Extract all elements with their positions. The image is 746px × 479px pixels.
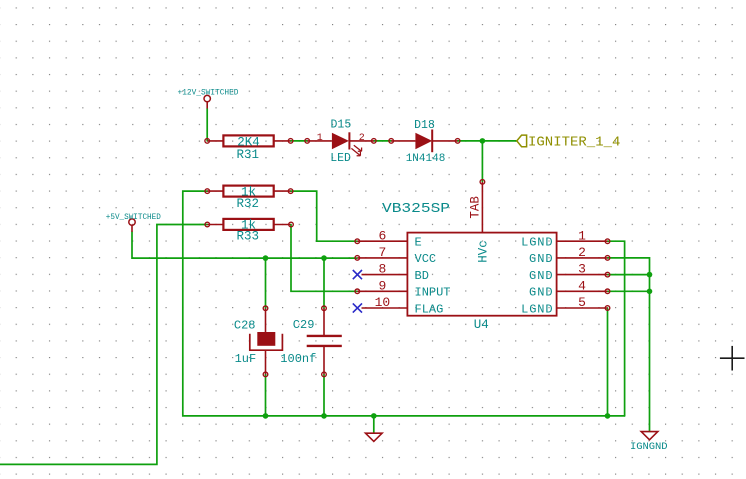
svg-text:E: E	[415, 236, 422, 250]
svg-text:R32: R32	[236, 197, 259, 211]
svg-text:GND: GND	[529, 269, 553, 283]
svg-text:C29: C29	[293, 318, 315, 332]
svg-text:LED: LED	[330, 152, 351, 165]
svg-text:10: 10	[375, 295, 391, 310]
svg-text:VB325SP: VB325SP	[382, 201, 450, 217]
svg-text:D18: D18	[414, 119, 435, 132]
svg-text:IGNGND: IGNGND	[630, 441, 668, 453]
svg-text:2: 2	[359, 133, 365, 144]
svg-text:BD: BD	[415, 269, 429, 283]
svg-text:+12V_SWITCHED: +12V_SWITCHED	[178, 88, 239, 97]
svg-text:1uF: 1uF	[235, 352, 257, 366]
svg-text:IGNITER_1_4: IGNITER_1_4	[528, 134, 620, 150]
svg-text:INPUT: INPUT	[415, 286, 451, 300]
svg-text:D15: D15	[331, 118, 352, 131]
svg-text:+5V_SWITCHED: +5V_SWITCHED	[106, 213, 161, 222]
svg-text:GND: GND	[529, 286, 553, 300]
svg-text:TAB: TAB	[469, 196, 483, 219]
svg-text:1: 1	[578, 228, 586, 243]
svg-text:U4: U4	[474, 318, 489, 332]
svg-text:1: 1	[317, 133, 323, 144]
svg-text:2: 2	[578, 245, 586, 260]
svg-text:LGND: LGND	[521, 236, 553, 250]
svg-text:6: 6	[378, 228, 386, 243]
svg-text:3: 3	[578, 262, 586, 277]
svg-text:9: 9	[378, 278, 386, 293]
svg-text:7: 7	[378, 245, 386, 260]
svg-text:5: 5	[578, 295, 586, 310]
svg-text:HVc: HVc	[476, 240, 490, 263]
svg-text:R31: R31	[236, 148, 259, 162]
svg-text:R33: R33	[236, 229, 259, 243]
svg-text:VCC: VCC	[415, 252, 437, 266]
svg-text:C28: C28	[234, 319, 256, 333]
svg-text:FLAG: FLAG	[415, 302, 444, 316]
svg-text:1N4148: 1N4148	[406, 153, 446, 165]
svg-text:GND: GND	[529, 252, 553, 266]
svg-text:100nf: 100nf	[280, 352, 316, 366]
svg-text:8: 8	[378, 262, 386, 277]
svg-text:4: 4	[578, 278, 586, 293]
svg-text:LGND: LGND	[521, 302, 553, 316]
